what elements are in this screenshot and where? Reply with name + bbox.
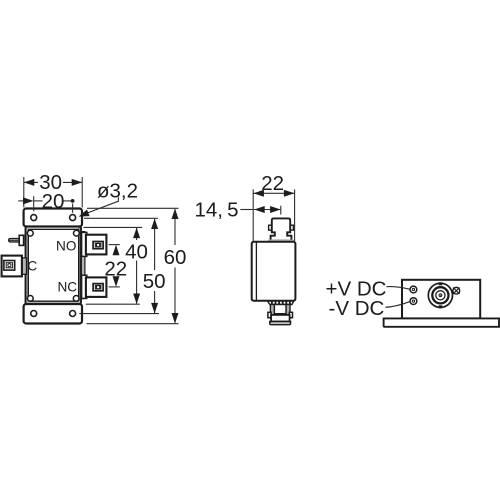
+V terminal [410, 286, 417, 293]
actuator bracket [19, 235, 23, 245]
flange holes [31, 215, 37, 221]
dim 30 extension lines [23, 177, 25, 207]
body top gray strip [268, 240, 295, 242]
pins [272, 301, 290, 305]
base plate [384, 318, 499, 326]
plug side tabs [269, 225, 272, 230]
BNC bayonet lugs [439, 282, 443, 285]
dim 20 stem+ext [18, 200, 27, 202]
bottom lip [270, 322, 291, 325]
svg-text:20: 20 [42, 190, 65, 213]
arrowhead leader 3,2 [79, 210, 90, 217]
dot dim 20 right end [71, 199, 75, 203]
right gray rail [81, 232, 85, 299]
dim 22 ext lines [109, 244, 120, 246]
dim 30 line [24, 181, 38, 183]
connector base [271, 315, 290, 322]
arrowheads dim 40 [133, 228, 140, 239]
BNC connector [428, 283, 452, 307]
dim 40 ext lines [84, 226, 143, 228]
dim 14,5 tick [280, 206, 282, 215]
svg-text:-V DC: -V DC [329, 297, 385, 320]
dim 60 ext lines [87, 207, 179, 209]
legs [270, 305, 274, 315]
dim 22 (middle) ext lines [252, 189, 254, 241]
center tongue [274, 305, 286, 314]
arrowheads dim 14,5 [254, 206, 265, 213]
NC terminal tab [86, 277, 107, 297]
svg-text:14, 5: 14, 5 [194, 199, 238, 222]
body left fold line [255, 242, 257, 300]
svg-text:C: C [27, 259, 37, 274]
svg-text:50: 50 [143, 270, 166, 293]
arrowhead dim 20 (outside, pointing right) [23, 197, 34, 204]
body inner rectangle (white) [28, 229, 78, 301]
NO terminal tab [86, 235, 107, 255]
C terminal neck (gray) [22, 258, 27, 274]
dim 50 ext lines [84, 217, 158, 219]
NC terminal neck [82, 275, 87, 298]
NC contact square [93, 284, 103, 291]
svg-text:ø3,2: ø3,2 [97, 180, 138, 203]
top mounting flange [24, 209, 82, 227]
svg-text:40: 40 [125, 241, 148, 264]
arrowheads dim 22 middle [253, 190, 264, 197]
arrowheads dim 22 [113, 245, 120, 256]
svg-text:22: 22 [261, 172, 284, 195]
-V terminal [410, 298, 417, 305]
leader -V DC [386, 302, 410, 308]
bottom connector pin band [267, 301, 294, 305]
ears [268, 312, 271, 317]
plug body with flange [271, 218, 292, 240]
C contact square [4, 261, 15, 271]
leader line diameter 3,2 [82, 197, 118, 215]
arrowheads dim 50 [151, 219, 158, 230]
C terminal tab [2, 256, 22, 277]
body gray edge backing (left/right/bottom) [26, 227, 29, 304]
dim 60 line [174, 209, 176, 245]
dim 50 line [154, 219, 156, 270]
NO terminal neck [82, 232, 87, 256]
svg-text:NC: NC [57, 279, 77, 294]
body outer rectangle [26, 227, 82, 305]
dim 14,5 leader [240, 209, 253, 211]
dim 22 (middle) line [253, 192, 294, 194]
NO contact square [93, 242, 103, 249]
rear housing [402, 280, 480, 319]
arrowheads dim 60 [172, 209, 179, 220]
svg-text:22: 22 [104, 258, 127, 281]
svg-text:60: 60 [164, 246, 187, 269]
dimensions middle view [240, 189, 294, 241]
actuator pin [9, 239, 20, 242]
leader +V DC [387, 287, 410, 290]
corner screws [27, 230, 33, 236]
dim 14,5 line [254, 209, 281, 211]
arrowheads dim 30 [24, 179, 35, 186]
svg-text:NO: NO [56, 238, 76, 253]
side body [252, 242, 296, 301]
dim 40 line [136, 228, 138, 240]
screw with cross [453, 287, 460, 294]
bottom mounting flange [24, 304, 82, 324]
